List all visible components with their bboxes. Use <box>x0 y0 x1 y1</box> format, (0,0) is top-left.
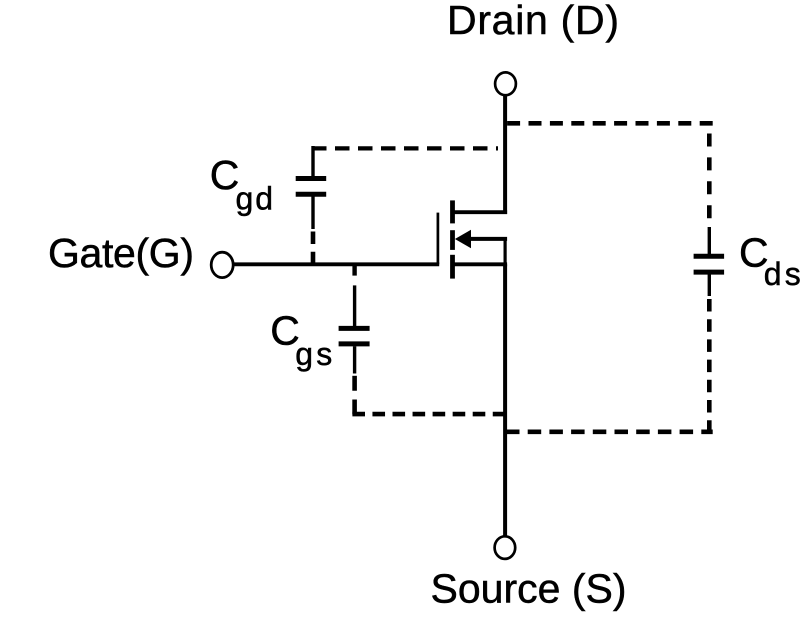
wire Cgs top stub <box>353 285 356 326</box>
wire Cds top stub <box>708 227 711 255</box>
wire dashed gate to Cgs <box>352 266 356 276</box>
svg-text:Gate(G): Gate(G) <box>48 230 194 276</box>
wire dashed Cds vertical top <box>707 134 712 229</box>
capacitor Cgs <box>339 328 370 344</box>
transistor Q1 N-channel MOSFET <box>438 200 507 278</box>
wire dashed Cds vertical bottom <box>707 299 712 433</box>
label Cds <box>739 230 801 292</box>
capacitor Cds <box>694 256 725 272</box>
channel segment top <box>450 200 455 223</box>
body line <box>462 237 507 241</box>
channel segment bottom <box>450 255 455 279</box>
wire dashed Cgd to drain (horizontal) <box>312 146 498 150</box>
terminal G circle <box>211 252 233 277</box>
wire Cgd top stub <box>311 146 314 177</box>
wire dashed source to Cds (bottom right horizontal) <box>506 429 713 434</box>
label Cgd <box>210 152 273 217</box>
drain tap <box>453 210 508 214</box>
wire dashed Cgd to gate wire <box>311 232 316 265</box>
body-source vertical <box>504 239 507 264</box>
gate bar <box>437 213 440 265</box>
capacitor Cgd <box>296 179 327 195</box>
svg-text:Source (S): Source (S) <box>431 565 627 611</box>
channel segment middle <box>450 230 455 250</box>
terminal S circle <box>495 536 516 559</box>
wire dashed Cgs to source (bottom left horizontal) <box>352 412 505 417</box>
wire Cds bottom stub <box>708 275 711 297</box>
source tap <box>453 262 508 266</box>
svg-text:Drain (D): Drain (D) <box>447 0 619 43</box>
wire Cgd bottom stub <box>311 197 314 230</box>
wire gate horizontal <box>233 262 440 266</box>
terminal D circle <box>495 72 516 95</box>
wire Cgs bottom stub <box>353 346 356 373</box>
body arrow <box>455 230 471 249</box>
wire dashed drain to Cds (top horizontal) <box>507 121 713 126</box>
wire dashed Cgs vertical bottom <box>352 376 357 417</box>
svg-text:gd: gd <box>236 181 274 217</box>
wire source vertical <box>503 264 507 537</box>
wire drain vertical <box>503 96 507 214</box>
label Cgs <box>270 308 332 372</box>
